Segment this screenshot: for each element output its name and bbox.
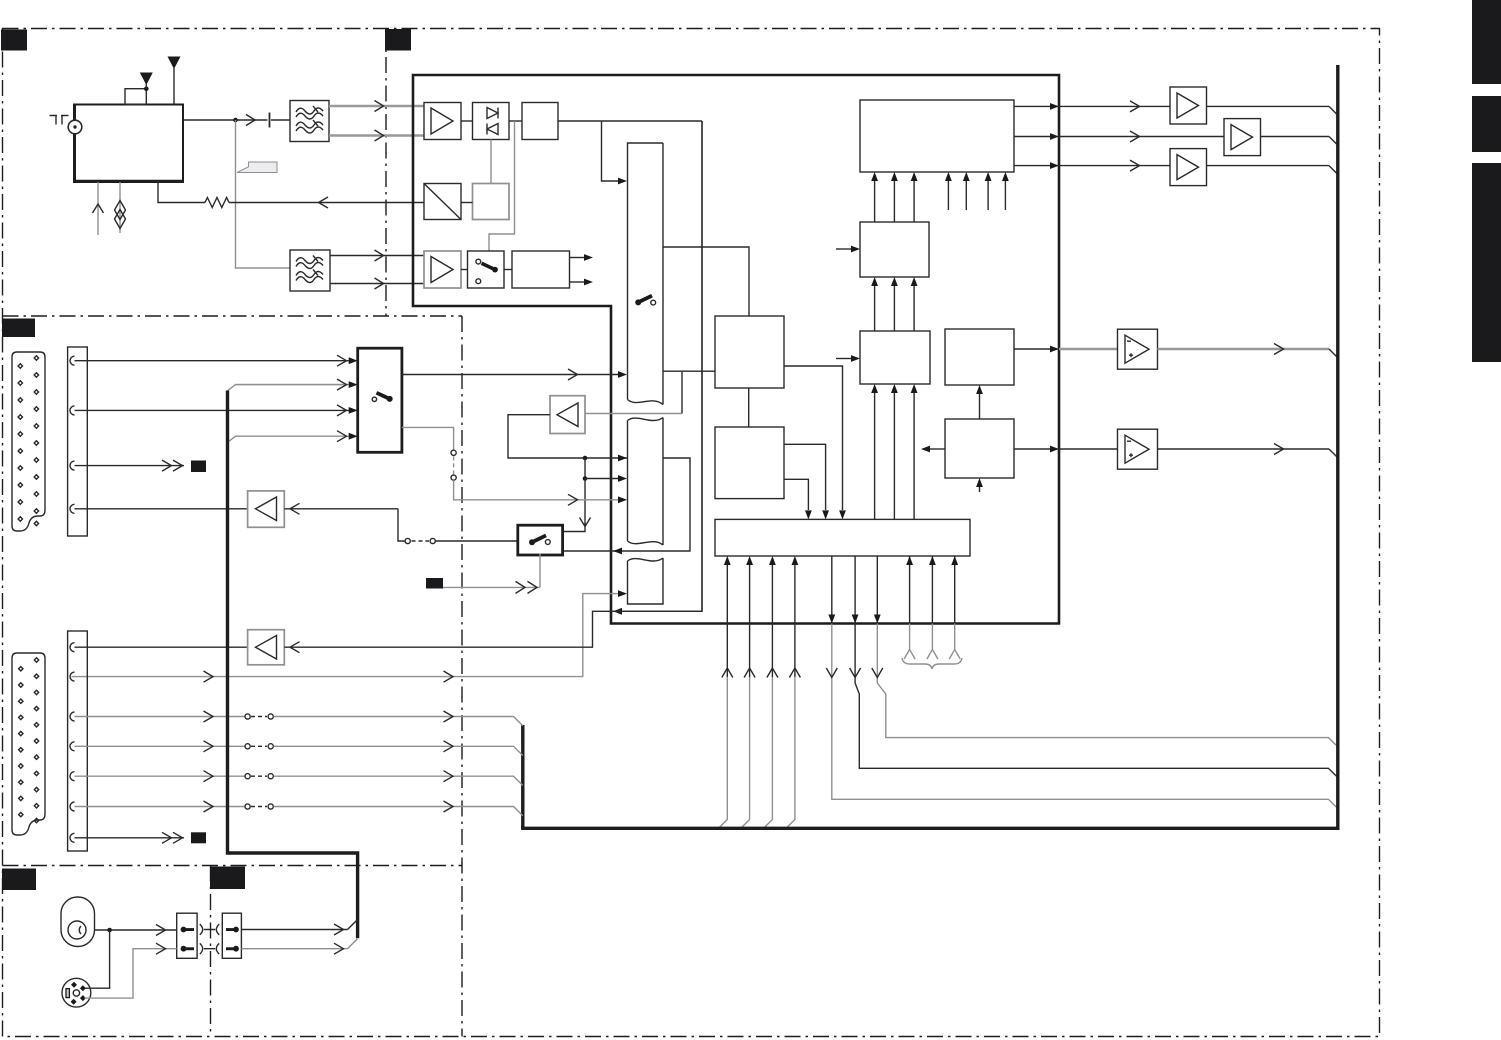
stub E bottom — [979, 487, 981, 492]
label box L3 — [191, 832, 206, 843]
wire AV2 line5 — [75, 775, 245, 777]
wire B out — [1014, 165, 1050, 167]
wire SW3 in — [72, 594, 619, 677]
RIGHT — [521, 65, 1338, 829]
faller 2 black — [855, 556, 1338, 778]
wire B out1 — [784, 444, 826, 510]
header strip CN4 — [68, 631, 88, 851]
chroma box C — [860, 331, 930, 384]
stub lines below top box — [947, 181, 949, 210]
MAINBOX — [72, 75, 1060, 682]
section label square 4 — [2, 869, 36, 891]
wire FL101 out2 — [329, 134, 424, 136]
detector out box — [522, 103, 558, 140]
divider AV bottom — [3, 865, 463, 867]
wire E-D — [979, 394, 981, 419]
wire N1 down — [584, 458, 586, 479]
opamp AR4 — [1118, 329, 1158, 369]
page tab 1 — [1472, 0, 1501, 84]
pulse flag symbol — [237, 162, 277, 173]
pipe 1 F-top — [874, 181, 876, 222]
node RF — [233, 118, 238, 123]
bandpass filter FL101 — [290, 101, 329, 142]
page tab 3 — [1472, 163, 1501, 362]
wire B out2 — [784, 479, 808, 510]
grey bus feed 2 — [228, 436, 349, 442]
divider tuner/main — [385, 29, 387, 317]
key stub 3 — [954, 556, 956, 624]
wire AV in 1 — [75, 360, 350, 362]
pipe 2 long-C — [893, 393, 895, 519]
wire G out — [1014, 136, 1050, 138]
CENTER — [715, 100, 1338, 828]
wire FL102 out1 — [330, 255, 424, 257]
wire M1-PLL — [461, 202, 473, 204]
opamp AR5 — [1118, 429, 1158, 469]
header strip CN2 — [68, 347, 88, 536]
plug block P1 — [177, 913, 197, 958]
pipe 3 long-C — [913, 393, 915, 519]
stub E left arrow — [930, 448, 945, 450]
NO contact pair 1 — [405, 538, 410, 543]
amp AR2 — [1224, 119, 1261, 156]
CN3 pins — [19, 658, 39, 823]
section label square 3 — [2, 319, 35, 338]
grey bus feed 1 — [228, 385, 349, 391]
wire tap down — [681, 371, 683, 413]
amp AR3 — [1170, 149, 1207, 186]
wire AV2 line7 — [75, 837, 185, 839]
wire buffer1 in — [284, 508, 398, 510]
switch block SW1 — [628, 143, 664, 405]
stub arrow into F — [836, 248, 851, 250]
CN1 pins — [18, 356, 39, 526]
D-sub connector CN1 — [12, 352, 45, 531]
wire buffer3 to CN4 — [75, 646, 248, 648]
wire SW1 out A — [663, 247, 749, 316]
wire SW1 out B — [663, 370, 715, 372]
wire IF out — [558, 120, 702, 122]
page tab 2 — [1472, 96, 1501, 152]
section label square 1 — [1, 30, 27, 51]
arrow RF — [246, 115, 255, 126]
tuner pin stub 2 — [119, 182, 121, 233]
RGB box top — [860, 100, 1014, 172]
IF amp A1 — [424, 103, 461, 140]
switch box SW4 — [358, 348, 402, 452]
D-sub connector CN3 — [12, 653, 45, 835]
antenna symbol A2 — [168, 57, 181, 70]
plug block P2 — [222, 913, 241, 958]
buffer U2 — [248, 630, 285, 665]
label box L1 — [191, 461, 206, 473]
CN2 contacts — [70, 356, 75, 513]
AV — [12, 121, 702, 938]
video proc box A — [715, 316, 784, 388]
TUNER — [50, 57, 425, 292]
switch block SW3 — [628, 558, 664, 604]
BOTTOM — [61, 897, 357, 1007]
wire to SW1 — [602, 121, 619, 181]
DIN connector J2 — [62, 978, 91, 1007]
pipe 2 F-top — [893, 181, 895, 222]
wire AV2 line4 — [75, 745, 245, 747]
faller 3 grey — [876, 556, 878, 624]
bandpass filter FL102 — [290, 250, 330, 291]
SW4 lever — [372, 397, 376, 401]
wire video out — [1014, 348, 1050, 350]
tuner pin stub 1 — [97, 182, 99, 235]
RCA jack J1 — [61, 897, 95, 947]
OSD box E — [945, 419, 1014, 478]
section label square 2 — [385, 29, 411, 51]
wire A1-D1 — [461, 120, 473, 122]
video proc box B — [715, 427, 784, 499]
label box L2 — [426, 578, 443, 589]
SW5 bottom stub — [539, 554, 541, 588]
wire A out — [784, 366, 843, 510]
wire R out — [1014, 105, 1050, 107]
buffer U1 — [248, 491, 285, 527]
wire D1 out — [509, 120, 522, 122]
tuner box U101 — [74, 105, 183, 183]
wire P2 out1 — [241, 929, 347, 931]
riser 1 from bus — [719, 677, 728, 828]
node N1 — [583, 456, 588, 461]
wire SW5 top link — [563, 523, 585, 532]
wire det to PLL — [489, 121, 515, 251]
wire AV in 2 — [75, 409, 350, 411]
switch block SW2 — [628, 418, 664, 546]
capacitor C101 — [269, 113, 271, 128]
CN4 contacts — [70, 643, 75, 843]
wire J1 out — [95, 929, 177, 931]
wire L2 to SW5 — [443, 586, 540, 588]
antenna symbol A1 — [140, 73, 153, 86]
wire A-B — [748, 388, 750, 427]
pipe 1 long-C — [874, 393, 876, 519]
wire P2 out2 grey — [241, 948, 347, 950]
wire IF down — [614, 121, 702, 611]
RF input connector J101 — [68, 120, 82, 134]
grey link D1 to PLL — [490, 140, 492, 184]
mating contacts — [200, 924, 219, 954]
diode detector D1 — [473, 103, 510, 140]
pipe 3 F-top — [913, 181, 915, 222]
wire AGC from tuner — [158, 181, 205, 202]
PLL box — [473, 184, 510, 220]
sync box F — [860, 222, 929, 277]
wire audio out1 — [570, 257, 585, 259]
wire grey to buffer U3 — [585, 413, 682, 415]
switch box SW5 — [518, 525, 563, 555]
left mid bus — [521, 725, 524, 829]
section label square 5 — [210, 867, 245, 890]
wire N2 to SW2 — [585, 478, 618, 480]
riser 3 from bus — [764, 677, 773, 828]
divider tuner bottom / AV top — [3, 315, 463, 317]
wire FL101 out1 — [329, 105, 424, 107]
node N2 — [583, 476, 588, 481]
riser 2 from bus — [741, 677, 750, 828]
wire DIN pin grey — [85, 949, 177, 998]
riser 4 from bus — [786, 677, 795, 828]
wire SW2 feedback loop — [563, 458, 690, 551]
wire SW0-box — [504, 269, 512, 271]
amp AR1 — [1170, 87, 1207, 124]
SW1 lever — [638, 296, 652, 303]
faller 1 grey — [831, 556, 833, 624]
main IC outline IC201 — [413, 75, 1059, 624]
wire FL102 out2 — [330, 283, 424, 285]
wire AV2 line6 — [75, 806, 245, 808]
buffer U3 — [550, 396, 585, 434]
mixer M1 — [424, 184, 461, 220]
stub arrow into C — [836, 358, 851, 360]
wire audio out — [1014, 448, 1050, 450]
wire cap to filter — [271, 119, 290, 121]
wire buffer3 in — [284, 121, 702, 647]
key stub 1 — [909, 556, 911, 624]
pipe 3 C-F — [913, 286, 915, 331]
RF plug mark — [50, 116, 69, 125]
wire U3 out loop — [508, 415, 628, 458]
node J1 — [107, 928, 112, 933]
wire VHF branch — [236, 120, 291, 268]
deflection box D — [945, 329, 1014, 385]
wire buffer1 to CN2 — [75, 508, 248, 510]
loop antenna bump — [125, 89, 146, 105]
wire SW4 out1 — [402, 374, 618, 376]
wire RF out — [183, 119, 268, 121]
audio amp A2 — [424, 251, 461, 288]
left bus — [228, 391, 358, 939]
pipe 1 C-F — [874, 286, 876, 331]
wire to SW5 — [435, 540, 518, 542]
wire to NO contacts — [398, 509, 405, 541]
node ANT1 — [144, 86, 149, 91]
wire A2-SW0 — [461, 269, 468, 271]
arrow AGC left — [319, 197, 329, 208]
resistor R101 — [205, 198, 229, 208]
wire audio out2 — [570, 281, 585, 283]
wire DIN pin up — [85, 930, 110, 988]
underbrace — [902, 658, 962, 669]
SW5 lever — [532, 535, 546, 542]
divider bottom sections — [210, 866, 212, 1037]
wire AGC — [229, 202, 424, 204]
audio out box — [512, 251, 570, 288]
pipe 2 C-F — [893, 286, 895, 331]
key stub 2 — [931, 556, 933, 624]
divider AV right — [461, 316, 463, 1037]
right bus — [521, 65, 1338, 828]
wire AV2 line3 — [75, 716, 245, 718]
wire AV label 3 — [75, 465, 185, 467]
wire N2 down arrow — [584, 479, 586, 527]
wire SW4 out2 grey — [402, 427, 454, 450]
bus interface long box — [715, 519, 970, 556]
switch SW0 — [468, 251, 505, 288]
